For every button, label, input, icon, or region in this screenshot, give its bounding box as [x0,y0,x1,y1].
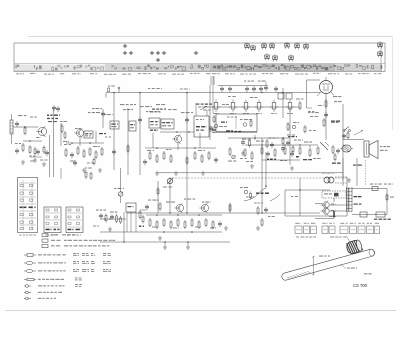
label FM bottom [226,130,241,132]
bold mark [333,211,335,218]
label TS pins [331,204,336,212]
wire vertical x343 [342,104,344,180]
ground G2 [33,158,37,162]
resistor R31 [332,145,334,154]
wire vertical x283 [282,88,284,118]
wire IF1 links [66,131,104,146]
note row 1 [42,234,75,237]
cap pair top [52,105,60,112]
chassis strip outline [14,43,385,72]
label SK2 pins [45,235,58,236]
resistor R28 [299,146,301,155]
chassis strip trimmers [123,44,198,62]
resistor R34 [105,214,107,223]
capacitor C11 [99,213,103,219]
wire vertical x326 [325,93,327,140]
resistor R44 [198,220,200,229]
page top border [28,36,392,38]
parts x60 col [60,121,69,142]
wire vertical x285 [285,190,298,216]
transistor TS3 [172,134,181,144]
capacitor C14 [15,121,19,127]
potentiometer P4 [232,155,236,159]
wire tuning-cap top rail [218,85,268,87]
IF transformer S2 [149,118,174,129]
wire verticals left [50,108,54,177]
resistor R50 [257,206,259,215]
note row 3 [42,245,109,248]
wire vertical x158 [157,181,159,213]
wire main bottom bus [127,212,320,214]
RF gain label [246,193,269,198]
output transformer T2 [347,187,353,212]
wire det links [245,144,318,160]
capacitor C1 [15,148,19,154]
label tube [308,96,343,123]
label speaker [380,146,390,151]
label cluster RF [15,115,37,162]
resistor R29 [309,148,311,157]
curve wire 2 [270,194,280,201]
wire RF links [13,126,42,157]
wire vertical x266 [265,152,267,188]
label dim [319,256,330,257]
page bottom border [5,310,396,312]
label SK3 pins [67,235,81,236]
wire IF chain rail [210,106,300,108]
capacitor C5 [214,157,218,163]
capacitor C22 [45,150,49,156]
resistor R58 [43,146,45,155]
wire power rail [343,139,364,141]
ground G18 [163,242,167,249]
tuning capacitor CT7 [274,86,278,92]
resistor R39 [163,218,165,227]
label cluster IF2 [120,104,205,151]
pointer arrow [354,131,363,136]
wire FM bottom rail [212,132,257,134]
label AF [148,199,216,229]
resistor R49 [65,148,67,157]
potentiometer P1 [163,178,174,188]
wire AF in [140,203,230,213]
ferrite rod [281,248,375,281]
resistor R24 [251,151,253,160]
capacitor C4 [143,159,147,165]
wire vertical x262 [261,138,263,213]
wire vertical x300 [299,178,301,216]
thermistor box [322,191,346,198]
label B3 [384,184,393,185]
speaker LS1 [364,141,378,159]
resistor R53 [186,156,188,165]
ground G3 [82,168,86,172]
transistor TS1 [36,126,46,137]
svg-text:CS 700: CS 700 [353,283,368,288]
ground G19 [186,242,190,249]
resistor R54 [386,193,388,202]
switch wafer SK2 [44,207,61,233]
dark mark tone [139,226,144,227]
aerial coil L1 [10,114,13,144]
resistor R11 [149,151,151,160]
FM tuner box [216,114,257,132]
ground G15 [158,236,162,240]
tube V1 [317,77,334,96]
IF can S1c [129,121,136,131]
wire vertical x140 [139,93,141,176]
resistor R9 [95,150,97,159]
wire vertical x347 [346,177,348,216]
resistor R19 [266,139,268,148]
jack J3 [376,212,385,217]
resistor R14 [170,154,172,163]
IF filter F6 [286,100,295,114]
label bus end [108,86,115,92]
IF filter F5 [270,100,279,114]
label under table [296,237,346,238]
legend row 5 [24,284,82,287]
resistor R32 [334,153,336,162]
tuning capacitor CT3 [245,86,249,92]
wire vertical x187 [186,92,188,213]
wire IF2 links [145,133,216,150]
resistor R18 [249,139,251,148]
driver transformer T1 [322,173,348,184]
ground G14 [224,226,228,230]
switch SW1 [342,127,351,140]
capacitor C23 [73,160,77,166]
switch wafer SK3 [66,207,83,233]
IF filter F3 [242,100,251,114]
resistor R23 [244,148,246,157]
label TS1 bits [36,137,48,161]
dimension line [312,256,315,276]
wire lower emitter bus [100,241,230,243]
coil leader [346,236,350,242]
res pair mid [85,168,92,181]
capacitor C15 [336,148,340,154]
note row 2 [42,239,115,242]
capacitor C21 [110,214,114,220]
capacitor C18 [138,117,142,123]
chassis strip cans [245,41,382,61]
tuning capacitor CT2 [228,86,232,92]
transistor TS4 [174,203,183,213]
wire left drop [101,109,105,128]
resistor R16 [201,154,203,163]
wire vertical x60 [60,123,62,179]
ground G20 [42,162,46,166]
wire right column [386,189,388,215]
chassis strip shelf line [14,63,385,65]
capacitor C17 [112,149,116,155]
label output values [354,196,362,205]
transistor TS6 [321,201,329,210]
wire out links [315,198,347,219]
wire vertical x290 [289,107,291,165]
label tone [93,210,117,227]
label cluster IF1 [64,108,113,147]
IF filter F4 [255,100,264,114]
transistor TS7 [321,207,329,216]
wire vertical x210 [210,76,213,140]
parts 305_127 [304,125,316,134]
IF can S1 [110,121,119,129]
resistor R8 [89,147,91,156]
wire tone links [100,212,136,232]
resistor R17 [208,151,210,160]
label under FM [228,158,247,162]
capacitor C6 [241,140,245,146]
resistor R27 [284,146,286,155]
label rod 2 [364,273,372,274]
IF transformer S3 [194,116,209,137]
wire AGC solid [157,172,343,174]
resistor R55 [229,147,231,156]
ground G17 [256,226,260,230]
resistor R47 [159,202,161,211]
capacitor C20 [270,142,274,148]
ground G11 [347,178,351,182]
resistor R7 [83,149,85,158]
capacitor C8 [266,151,270,157]
legend row 2 [24,261,111,265]
capacitor C7 [324,112,328,118]
capacitor C2 [36,149,40,155]
wire AF rails [100,214,222,233]
capacitor C13 [145,204,149,210]
label osc [228,81,266,99]
wire vertical x128 [127,108,129,175]
transistor TS2 [74,128,83,138]
wire vertical x124 [121,168,124,242]
resistor R30 [317,146,319,155]
resistor R1 [24,126,26,135]
legend row 6 [24,291,62,294]
ground G4 [98,168,102,172]
capacitor C12 [218,221,222,227]
resistor R25 [261,146,263,155]
wire TS3 rail [160,131,194,133]
label SK1 pins [19,235,36,236]
resistor R35 [116,214,122,224]
tuning capacitor CT4 [252,86,256,92]
resistor R45 [205,218,207,227]
ground G1 [21,160,25,164]
tuning capacitor CT1 [220,86,224,92]
resistor R46 [212,220,214,229]
jack J2 [360,212,367,217]
dark det label [267,159,276,161]
ground G8 [241,151,245,155]
wire mid rail [228,135,290,140]
label S2 value [150,130,158,131]
legend row 7 [24,297,56,300]
IF filter F1 [212,100,221,114]
resistor R59 [93,158,95,166]
phone socket P3 [370,184,382,191]
label TS2 bits [70,133,111,164]
chassis strip parts band [15,64,382,71]
oscillator coil L2 [278,93,292,99]
ground G12 [108,227,112,231]
wire output bottom rail [285,215,347,217]
arrow to bus [200,106,207,110]
transistor TS5 [199,203,208,213]
resistor R38 [156,220,158,229]
resistor R12 [156,154,158,163]
resistor R10 [101,147,103,156]
tuning capacitor CT5 [259,86,263,92]
label CS700 [353,283,368,288]
resistor R42 [184,220,186,229]
pot B4 [240,187,252,200]
resistor R6 [77,146,79,155]
page right border [392,37,394,131]
legend row 4 [24,278,82,281]
resistor R26 [274,148,276,157]
legend row 1 [24,253,111,256]
wire AGC dashed link [172,177,347,179]
grid loop wire [307,80,321,108]
wire out top [352,188,387,190]
capacitor C9 [290,151,294,157]
ground G9 [250,164,254,168]
right col parts [286,122,300,158]
wire speaker drop [343,158,366,186]
curve wire 1 [244,188,266,201]
label jack [374,219,391,220]
resistor R13 [163,151,165,160]
wire out bottom [352,214,387,216]
resistor R51 [261,218,263,227]
resistor R40 [170,220,172,229]
label power text [331,121,363,166]
resistor R21 [325,99,327,108]
capacitor C19 [185,117,189,123]
wire output stage rail [285,189,330,191]
potentiometer P2 [114,188,124,196]
resistor R4 [34,147,36,156]
resistor R43 [191,218,193,227]
parts left of FM [209,126,215,132]
osc chain [212,115,218,133]
chassis strip caption row [16,73,381,75]
tuning capacitor CT6 [264,82,268,91]
antenna coil L3 [346,239,363,254]
resistor R37 [149,218,151,227]
resistor R20 [281,137,285,152]
label misc af [254,203,275,218]
diode D1 [320,142,329,150]
resistor R22 [323,118,325,127]
label det row [242,138,321,163]
wire vertical x114 [113,93,115,171]
label rod leader [340,264,357,269]
wire strip feed [211,76,214,85]
det dark bits [288,136,312,160]
IF can S1b [84,131,93,138]
wire top bus [106,92,320,98]
resistor R3 [29,145,31,154]
electrolytic can C10 [340,145,353,152]
wire vertical x170 [169,177,171,213]
resistor R57 [299,101,301,110]
ground G10 [290,166,294,170]
resistor R15 [194,151,196,160]
label AF115 stack [47,115,60,123]
bus stubs [118,87,229,116]
connector table [295,223,380,234]
capacitor C16 [264,207,268,213]
label right col [390,197,394,198]
resistor R56 [142,215,144,224]
FM tuner innards [219,116,252,129]
legend row 3 [24,269,111,273]
volume box [126,203,136,212]
switch wafer SK1 [18,178,38,233]
ground G6 [174,171,178,175]
resistor R36 [139,210,141,219]
resistor R52 [127,144,129,153]
ground G5 [155,171,159,175]
resistor R2 [22,143,24,152]
resistor R48 [229,203,231,212]
chassis strip right inner wall [380,43,382,72]
ground G7 [201,171,205,175]
IF filter F2 [229,100,238,114]
capacitor C3 [70,152,74,158]
label grid [296,99,314,113]
resistor R41 [177,218,179,227]
